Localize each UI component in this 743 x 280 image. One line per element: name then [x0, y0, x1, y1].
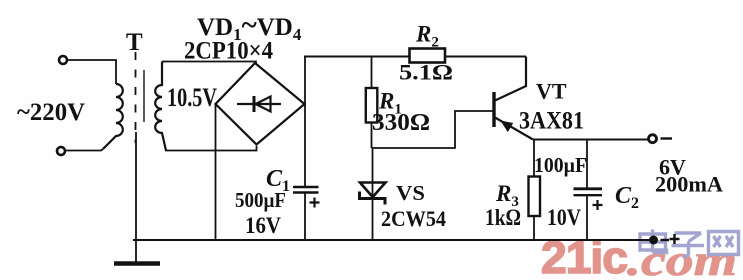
svg-text:VS: VS: [396, 181, 425, 205]
transformer T primary winding: [103, 84, 123, 149]
label C2: [615, 183, 639, 212]
svg-text:5.1Ω: 5.1Ω: [399, 60, 453, 85]
wire bridge left corner to ground rail: [215, 104, 217, 240]
resistor R2: [410, 49, 446, 63]
label 500uF: [235, 188, 286, 212]
label 6V: [659, 155, 686, 180]
bridge rectifier diamond: [216, 63, 305, 145]
svg-text:1kΩ: 1kΩ: [485, 205, 521, 230]
resistor R1: [366, 57, 378, 149]
resistor R3: [529, 140, 541, 241]
label R1: [378, 89, 402, 118]
label 5.1ohm: [399, 60, 453, 85]
watermark 电: [640, 230, 667, 253]
label T: [126, 29, 143, 56]
wire input bottom to primary: [66, 149, 104, 151]
label R2: [415, 22, 439, 51]
svg-text:500µF: 500µF: [235, 188, 286, 212]
transformer core dashed line: [135, 52, 137, 143]
wire transformer center to ground: [135, 132, 137, 262]
label VD1~VD4: [197, 9, 302, 44]
svg-text:10V: 10V: [547, 205, 581, 230]
wire bridge right corner riser to top rail and down to C1: [304, 57, 306, 186]
capacitor C1: [293, 187, 320, 240]
label 10V: [547, 205, 581, 230]
wire top rail: [304, 56, 526, 58]
label 3AX81: [519, 108, 584, 135]
watermark 网: [709, 232, 739, 255]
label ~220V: [17, 99, 85, 126]
wire zener branch: [372, 148, 374, 240]
wire input top to primary: [68, 60, 117, 84]
label 2CW54: [381, 206, 446, 231]
svg-text:2CW54: 2CW54: [381, 206, 446, 231]
transformer core solid line: [143, 70, 145, 122]
svg-text:200mA: 200mA: [655, 172, 723, 197]
svg-text:100µF: 100µF: [534, 153, 587, 177]
label 330ohm: [372, 110, 430, 136]
ground: [114, 261, 160, 266]
watermark .com: [627, 236, 737, 280]
label R3: [495, 181, 519, 210]
capacitor C2: [574, 140, 603, 241]
label 100uF: [534, 153, 587, 177]
minus dash after terminal: [661, 137, 673, 139]
label VS: [396, 181, 425, 205]
label 2CP10x4: [184, 38, 273, 65]
watermark 子: [672, 233, 705, 256]
dash after bottom terminal: [661, 239, 670, 241]
svg-text:10.5V: 10.5V: [167, 83, 217, 112]
watermark 21ic: [541, 232, 627, 280]
label 1kohm: [485, 205, 521, 230]
svg-text:~220V: ~220V: [17, 99, 85, 126]
plus sign at bottom output: [670, 234, 680, 244]
label 16V: [245, 213, 281, 238]
svg-text:VT: VT: [536, 79, 567, 104]
wire bottom rail: [133, 239, 649, 241]
output terminal bottom: [650, 236, 658, 244]
label C1: [266, 166, 290, 195]
svg-text:3AX81: 3AX81: [519, 108, 584, 135]
transistor VT: [494, 57, 533, 140]
label 10.5V: [167, 83, 217, 112]
zener diode VS: [360, 183, 386, 205]
label 200mA: [655, 172, 723, 197]
input terminal top: [59, 56, 67, 64]
output terminal top: [649, 135, 657, 143]
svg-text:2CP10×4: 2CP10×4: [184, 38, 273, 65]
wire R1 bottom to base riser: [372, 111, 493, 148]
wire secondary bottom to bridge bottom: [165, 146, 257, 151]
input terminal bottom: [57, 147, 65, 155]
svg-text:330Ω: 330Ω: [372, 110, 430, 136]
wire secondary top to bridge top: [162, 62, 256, 65]
bridge diode symbol: [237, 96, 281, 112]
svg-text:16V: 16V: [245, 213, 281, 238]
transformer secondary winding: [155, 62, 166, 151]
wire output rail: [533, 139, 649, 141]
label VT: [536, 79, 567, 104]
svg-text:T: T: [126, 29, 143, 56]
